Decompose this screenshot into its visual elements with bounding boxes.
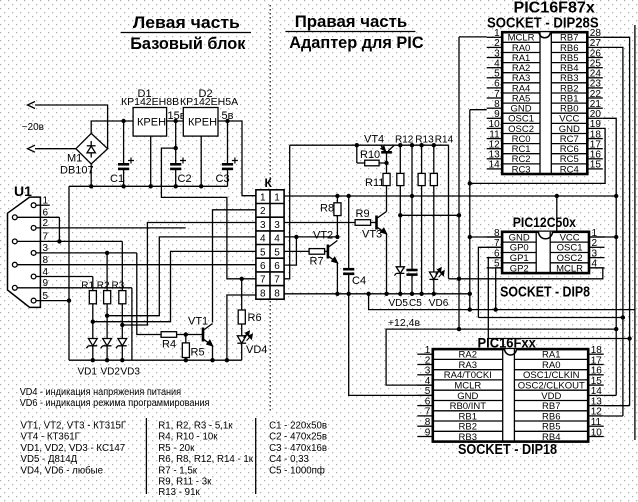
- wire: DIP28 pin27 RB6 down right side: [603, 47, 623, 416]
- title: Правая часть (underlined): [285, 12, 415, 32]
- resistor R9: [355, 208, 376, 225]
- regulator D1 KR142EN8B: [121, 88, 179, 136]
- svg-text:КР142ЕН5А: КР142ЕН5А: [180, 96, 238, 108]
- wire: data line GP0 to RB6 vertical: [478, 317, 623, 319]
- svg-text:3: 3: [260, 220, 266, 231]
- svg-text:C1 - 220х50в: C1 - 220х50в: [269, 420, 327, 431]
- junction dots on VPP rail: [355, 143, 436, 147]
- adapter ground bus from K row 8: [284, 293, 470, 295]
- capacitor C2: [170, 121, 191, 186]
- junction dot row4 at R2 chain: [105, 314, 109, 318]
- svg-text:RB3: RB3: [459, 432, 477, 443]
- ground bus of power section: [69, 185, 228, 187]
- svg-text:VT1: VT1: [188, 316, 208, 328]
- svg-text:8: 8: [274, 288, 280, 299]
- zener diode VD3: [116, 339, 140, 378]
- wire: DIP18 VDD pin14 to VCC vertical: [604, 394, 617, 396]
- resistor R10: [357, 145, 387, 166]
- svg-text:C2: C2: [178, 173, 192, 185]
- wire: AC top input to bridge right corner: [35, 105, 108, 149]
- wire: K row 5 to R7: [284, 250, 309, 252]
- parts list divider 1: [145, 418, 147, 494]
- svg-text:VT3: VT3: [362, 229, 382, 241]
- wire: VPP rail drop to MCLR feed line: [448, 145, 450, 279]
- svg-text:R2: R2: [97, 281, 110, 292]
- junction dot R6 chain on 15v-row7 wire: [240, 277, 244, 281]
- svg-text:R4, R10 - 10к: R4, R10 - 10к: [158, 432, 218, 443]
- wire: ground bus down the left side to U1 pin5 and bottom bus: [68, 186, 70, 360]
- svg-text:VT4 - КТ361Г: VT4 - КТ361Г: [21, 432, 81, 443]
- title: Адаптер для PIC: [289, 33, 423, 52]
- svg-text:VD5 - Д814Д: VD5 - Д814Д: [21, 454, 78, 465]
- svg-text:VD3: VD3: [121, 367, 141, 378]
- svg-text:C3 - 470х16в: C3 - 470х16в: [269, 443, 327, 454]
- svg-text:VD4: VD4: [246, 344, 267, 356]
- U1 pin 6: [12, 208, 59, 220]
- wire: DIP18 RB7 pin13 to vertical: [604, 405, 630, 407]
- resistor R5: [182, 335, 204, 361]
- wire: DIP8 GND pin8: [470, 236, 502, 238]
- svg-text:Левая часть: Левая часть: [133, 13, 240, 32]
- svg-text:4: 4: [43, 267, 49, 278]
- wire: DIP8 GP2 pin5 to ground link: [496, 268, 502, 310]
- wire: K row 3 to R9: [284, 222, 355, 224]
- svg-text:8: 8: [260, 288, 266, 299]
- svg-text:КРЕН: КРЕН: [188, 117, 217, 129]
- svg-text:C3: C3: [216, 173, 230, 185]
- svg-text:R14: R14: [435, 135, 454, 146]
- svg-text:5: 5: [43, 291, 49, 302]
- wire: D1 output to D2 input (15v): [167, 120, 184, 122]
- svg-text:R5 - 20к: R5 - 20к: [158, 443, 195, 454]
- svg-text:R11: R11: [365, 177, 384, 189]
- parts list column 1 (transistors and diodes): [21, 420, 127, 476]
- svg-text:VD2: VD2: [101, 367, 121, 378]
- U1 pin 3: [31, 243, 137, 255]
- ground link bus below adapter: [369, 294, 635, 310]
- svg-text:4: 4: [260, 234, 266, 245]
- junction dots on 15v/5v rail: [121, 119, 229, 151]
- wire: K row 2 to VT1 collector: [213, 210, 256, 323]
- resistor R13: [415, 135, 434, 294]
- junction dot data line at RB6 vertical: [621, 315, 625, 319]
- wire: DIP28 pin19 GND loop to pin8 vertical: [470, 128, 605, 183]
- PIC12C50x DIP8 left pin numbers with stubs: [494, 228, 500, 270]
- wire: D2 output 5v to K pin 1: [218, 121, 256, 196]
- zener diode VD1: [78, 339, 98, 378]
- wire: DIP28 MCLR vertical (pin1): [458, 37, 460, 329]
- svg-text:VD6 - индикация режима програм: VD6 - индикация режима программирования: [20, 398, 210, 409]
- PIC12C50x DIP8 left pin labels: [509, 232, 530, 274]
- junction dots on adapter ground bus: [335, 292, 472, 296]
- svg-text:R7 - 1,5к: R7 - 1,5к: [158, 465, 197, 476]
- svg-text:R6, R8, R12, R14 - 1к: R6, R8, R12, R14 - 1к: [158, 454, 253, 465]
- svg-text:M1: M1: [67, 153, 82, 165]
- svg-text:MCLR: MCLR: [556, 263, 583, 274]
- resistor R11: [365, 173, 390, 211]
- svg-text:VD6: VD6: [429, 298, 449, 309]
- junction dot jog on row4 wire: [294, 235, 298, 239]
- transistor VT3 (NPN): [362, 212, 387, 294]
- wire: bridge plus output to regulators rail: [91, 121, 133, 133]
- wire: clock line GP1 to RB7 vertical: [488, 338, 629, 340]
- svg-text:1: 1: [43, 196, 49, 207]
- resistor R3: [112, 241, 126, 338]
- junction dot VT2 collector node: [335, 235, 339, 239]
- connector U1 (DB9) outline: [8, 183, 41, 307]
- svg-text:SOCKET - DIP28S: SOCKET - DIP28S: [487, 15, 599, 32]
- svg-text:R6: R6: [248, 312, 262, 324]
- svg-text:C4: C4: [352, 275, 366, 287]
- junction dot row3 drop at R3 chain: [120, 323, 124, 327]
- wire: DIP8 GP1 pin6 clock drop: [488, 258, 502, 339]
- wire: D1 ground pin: [150, 136, 152, 186]
- svg-text:9: 9: [43, 278, 49, 289]
- wire: R12/zener node to MCLR vertical: [400, 214, 459, 216]
- VPP feed line to DIP8 MCLR: [449, 268, 603, 279]
- PIC12C50x DIP8 socket body: [502, 232, 589, 273]
- capacitor C5: [406, 270, 422, 309]
- PIC16F87x DIP28S socket body: [502, 32, 587, 174]
- svg-text:7: 7: [43, 232, 49, 243]
- bottom ground bus: [69, 359, 242, 361]
- parts list column 2 (resistors): [158, 420, 253, 497]
- wire: +12.4v line from VPP vertical to DIP18 MCLR and VCC column: [386, 329, 616, 385]
- svg-text:R7: R7: [310, 256, 324, 268]
- svg-text:U1: U1: [14, 183, 32, 199]
- input terminal top (~20v): [28, 102, 36, 109]
- svg-text:7: 7: [274, 275, 280, 286]
- junction dots on +5v rail: [335, 194, 618, 198]
- svg-text:PIC12C50x: PIC12C50x: [513, 214, 576, 230]
- wire: 15v tap to K pin 7: [161, 148, 256, 279]
- U1 pin 4: [31, 267, 93, 279]
- wire: DIP8 GP0 pin7 data drop: [478, 247, 502, 317]
- wire: bridge minus to ground bus: [90, 164, 92, 186]
- resistor R2: [97, 253, 111, 338]
- U1 pin 5 (ground): [31, 291, 69, 303]
- junction dot clock line at RB7 vertical: [627, 336, 631, 340]
- U1 pin 7: [12, 232, 122, 244]
- svg-text:C2 - 470х25в: C2 - 470х25в: [269, 432, 327, 443]
- svg-text:5: 5: [274, 247, 280, 258]
- U1 pin 8 (to K row 6): [12, 255, 256, 267]
- wire: DIP18 RB6 pin12 to vertical: [604, 415, 623, 417]
- PIC16F87x DIP28S left pin numbers with stubs: [489, 28, 501, 171]
- regulator D2 KR142EN5A: [180, 88, 238, 136]
- junction dot R10/VT4 base/R11: [384, 161, 388, 165]
- junction dot VPP vertical on feed line: [457, 277, 461, 281]
- LED VD4: [237, 331, 267, 360]
- right edge frame line: [634, 25, 636, 440]
- section divider dotted line: [269, 5, 271, 413]
- PIC16Fxx DIP18 left pin labels: [444, 350, 492, 443]
- svg-text:C1: C1: [110, 173, 124, 185]
- svg-text:VT1, VT2, VT3 - КТ315Г: VT1, VT2, VT3 - КТ315Г: [21, 420, 127, 431]
- transistor VT2 (NPN): [313, 230, 337, 294]
- junction dots on +12.4v line: [457, 327, 619, 331]
- wire: K row4-row6 jog: [284, 237, 296, 265]
- PIC16Fxx socket title: [458, 335, 557, 459]
- zener diode VD2: [101, 339, 121, 378]
- junction dot DIP8 VCC at vertical: [614, 235, 618, 239]
- junction dots on power ground bus: [89, 184, 203, 188]
- PIC16Fxx DIP18 right pin labels: [518, 350, 585, 443]
- note VD6 indication: [20, 398, 210, 409]
- junction dots on lower ground link: [468, 307, 498, 311]
- svg-text:2: 2: [260, 206, 266, 217]
- svg-text:VD1, VD2, VD3 - КС147: VD1, VD2, VD3 - КС147: [21, 443, 126, 454]
- label 5в: [222, 110, 234, 122]
- svg-text:R4: R4: [162, 339, 176, 351]
- PIC16Fxx DIP18 socket body: [433, 349, 588, 442]
- svg-text:Правая часть: Правая часть: [295, 12, 408, 31]
- junction dot R2 top on U1 pin3 line: [105, 251, 109, 255]
- resistor R8: [320, 196, 341, 237]
- K left column pin numbers 1-8: [260, 193, 266, 300]
- resistor R4: [161, 332, 203, 351]
- title: Базовый блок: [130, 34, 246, 53]
- svg-text:+12,4в: +12,4в: [388, 317, 421, 329]
- svg-text:VT2: VT2: [313, 230, 333, 242]
- wire: DIP28 pin20 VCC down right side: [603, 118, 616, 395]
- wire: D2 ground pin: [200, 136, 202, 186]
- PIC12C50x DIP8 right pin numbers with stubs: [592, 228, 598, 270]
- svg-text:3: 3: [274, 220, 280, 231]
- wire: K row 4 to R2 chain node: [107, 237, 256, 316]
- PIC12C50x socket title: [500, 214, 590, 301]
- PIC16F87x DIP28S right pin numbers with stubs: [590, 28, 602, 171]
- parts list column 3 (capacitors): [269, 420, 327, 476]
- resistor R14: [430, 135, 453, 273]
- svg-text:КРЕН: КРЕН: [137, 117, 166, 129]
- wire: K row 5 to R1 chain node: [93, 251, 256, 321]
- U1 pin 9: [12, 278, 131, 290]
- svg-text:C5: C5: [409, 298, 422, 309]
- title: Левая часть (underlined): [121, 13, 251, 33]
- label +12,4в: [388, 317, 421, 329]
- svg-text:GP2: GP2: [510, 263, 529, 274]
- capacitor C1: [110, 121, 134, 186]
- svg-text:К: К: [265, 176, 273, 190]
- junction dot U1 pin5 ground: [67, 298, 71, 302]
- wire: DIP28 GND vertical (pin8): [469, 110, 471, 310]
- wire: DIP28 pin28 RB7 down right side: [603, 37, 630, 405]
- svg-text:R1: R1: [81, 281, 94, 292]
- junction dots on bottom ground bus: [91, 358, 229, 362]
- junction dots on R12-MCLR link: [398, 213, 461, 217]
- wire: +5v rail from K row 1 to VCC vertical: [284, 195, 616, 197]
- svg-text:6: 6: [43, 208, 49, 219]
- svg-text:RB4: RB4: [542, 432, 560, 443]
- input terminal bottom: [28, 145, 36, 152]
- junction dot row5 at R1 chain: [91, 320, 95, 324]
- wire: U1 pin3 drop to R4: [137, 253, 161, 335]
- PIC16Fxx DIP18 left pin numbers with stubs: [425, 345, 431, 438]
- svg-text:8: 8: [43, 255, 49, 266]
- label 15в: [168, 110, 186, 122]
- svg-text:R12: R12: [395, 135, 414, 146]
- wire: VPP/VCC link through C5 column: [411, 145, 413, 270]
- PIC16F87x DIP28S left pin labels: [508, 33, 535, 176]
- LED VD6: [429, 268, 449, 309]
- svg-text:C4 - 0,33: C4 - 0,33: [269, 454, 309, 465]
- junction dot pin6/pin7: [57, 239, 61, 243]
- note VD4 indication: [20, 387, 181, 398]
- bridge rectifier M1 DB107: [60, 133, 108, 176]
- svg-text:~20в: ~20в: [22, 122, 44, 133]
- resistor R7: [309, 249, 328, 268]
- svg-text:4: 4: [274, 234, 280, 245]
- svg-text:R1, R2, R3 - 5,1к: R1, R2, R3 - 5,1к: [158, 420, 233, 431]
- PIC12C50x DIP8 right pin labels: [556, 232, 583, 274]
- wire: K row 3 to ground bus drop: [122, 223, 256, 326]
- junction dot DIP8 GND on vertical: [468, 235, 472, 239]
- resistor R12: [395, 135, 414, 267]
- svg-text:VT4: VT4: [364, 134, 384, 146]
- junction dot R4/R5/VT1 base: [184, 332, 188, 336]
- svg-text:VD1: VD1: [78, 367, 98, 378]
- svg-text:SOCKET - DIP18: SOCKET - DIP18: [458, 441, 557, 458]
- resistor R1: [81, 277, 96, 339]
- svg-text:R5: R5: [191, 347, 205, 359]
- U1 pin 2: [31, 218, 186, 230]
- svg-text:R9: R9: [356, 208, 370, 220]
- svg-text:VD4, VD6 - любые: VD4, VD6 - любые: [21, 465, 104, 476]
- wire: ground to DIP18 pin5: [349, 294, 433, 396]
- wire: K row 7 riser to VPP rail: [284, 145, 290, 279]
- svg-text:6: 6: [260, 261, 266, 272]
- connector K table: [256, 176, 284, 299]
- resistor R6: [238, 279, 261, 336]
- junction dot GND vertical at pin19 link: [468, 181, 472, 185]
- U1 pin 1: [31, 196, 50, 208]
- svg-text:RC3: RC3: [512, 164, 531, 175]
- svg-text:R10: R10: [360, 149, 380, 161]
- svg-text:7: 7: [260, 275, 266, 286]
- parts list divider 2: [255, 418, 257, 494]
- svg-text:DB107: DB107: [60, 165, 94, 177]
- svg-text:КР142ЕН8В: КР142ЕН8В: [121, 96, 179, 108]
- svg-text:R8: R8: [320, 203, 334, 215]
- transistor VT4 (PNP) with emitter/collector on VPP rail: [364, 134, 394, 174]
- PIC16Fxx DIP18 right pin numbers with stubs: [591, 345, 603, 438]
- svg-text:R3: R3: [112, 281, 125, 292]
- wire: AC bottom input to bridge left corner: [35, 148, 76, 150]
- capacitor C3: [216, 121, 238, 186]
- wire: U1 pin6 drop to pin7 line: [58, 217, 60, 241]
- svg-text:C5 - 1000пф: C5 - 1000пф: [269, 465, 325, 476]
- capacitor C4: [343, 196, 366, 294]
- PIC16F87x DIP28S right pin labels: [559, 33, 580, 176]
- wire: K row 4 to VT2 collector / R8: [284, 236, 337, 238]
- svg-text:1: 1: [260, 193, 266, 204]
- svg-text:2: 2: [43, 218, 49, 229]
- wire: DIP28 pin8 GND to vertical: [470, 109, 487, 111]
- K right column pin numbers: [274, 193, 280, 300]
- wire: K row 8 ground drop to bottom bus: [227, 295, 256, 360]
- PIC16F87x socket title: [487, 0, 599, 32]
- svg-text:Базовый блок: Базовый блок: [130, 34, 246, 53]
- zener diode VD5: [389, 267, 409, 309]
- transistor VT1 (NPN): [188, 316, 213, 361]
- wire: DIP8 VCC pin1 to VCC vertical: [589, 236, 616, 238]
- svg-text:R13: R13: [415, 135, 434, 146]
- wire: DIP28 pin1 MCLR to vertical: [459, 36, 487, 38]
- VPP rail (15v switched): [290, 144, 449, 146]
- svg-text:SOCKET - DIP8: SOCKET - DIP8: [500, 284, 590, 301]
- svg-text:6: 6: [274, 261, 280, 272]
- svg-text:VD4 - индикация напряжения пит: VD4 - индикация напряжения питания: [20, 387, 181, 398]
- svg-text:Адаптер для PIC: Адаптер для PIC: [289, 33, 423, 52]
- svg-text:3: 3: [43, 243, 49, 254]
- label ~20в: [22, 122, 44, 133]
- svg-text:RC4: RC4: [560, 164, 579, 175]
- svg-text:R13 - 91к: R13 - 91к: [158, 487, 200, 498]
- svg-text:5: 5: [260, 247, 266, 258]
- wire: VCC top feed into DIP8 VCC cell: [556, 196, 558, 232]
- svg-text:VD5: VD5: [389, 298, 409, 309]
- svg-text:1: 1: [274, 193, 280, 204]
- wire: U1 pin9 drop to bottom ground bus: [131, 288, 133, 360]
